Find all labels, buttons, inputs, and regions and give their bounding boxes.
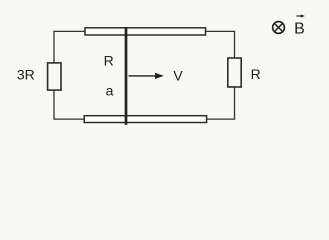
svg-text:B: B xyxy=(294,20,305,37)
svg-text:a: a xyxy=(106,83,114,99)
wire from resistor 3R bottom to bottom rail left end xyxy=(54,90,84,119)
wire from top rail left end to resistor 3R top xyxy=(54,31,85,63)
top conducting rail xyxy=(85,28,206,35)
resistor R xyxy=(228,58,241,87)
wire from resistor R bottom to bottom rail right end xyxy=(207,87,235,119)
sliding rod ab (resistance R) xyxy=(125,27,128,125)
bottom conducting rail xyxy=(84,116,206,123)
svg-text:R: R xyxy=(104,52,114,68)
magnetic field into page symbol (circled X) xyxy=(273,22,285,34)
wire from top rail right end to resistor R top xyxy=(206,31,235,58)
svg-text:V: V xyxy=(173,67,183,83)
velocity arrow xyxy=(129,73,164,79)
label B (magnetic field vector) xyxy=(294,14,305,37)
resistor 3R xyxy=(48,63,61,90)
svg-text:3R: 3R xyxy=(17,67,35,83)
svg-text:R: R xyxy=(251,66,261,82)
